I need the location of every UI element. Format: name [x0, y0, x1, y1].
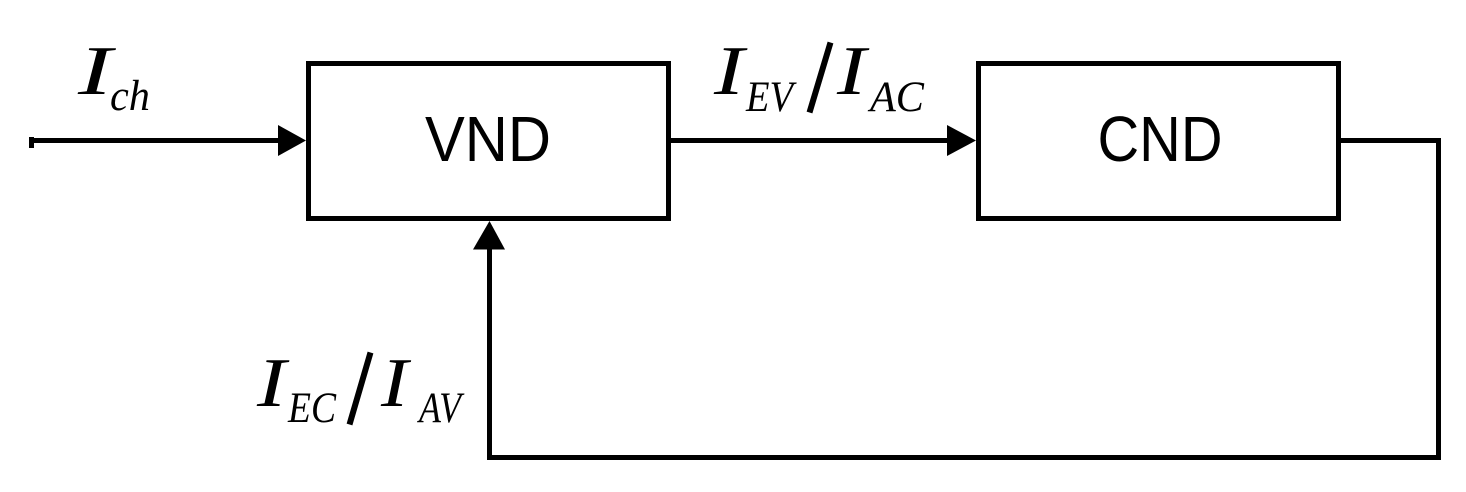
svg-text:EC: EC	[287, 385, 337, 432]
wire feedback CND right down across and up into VND bottom	[473, 141, 1439, 458]
svg-text:I: I	[256, 345, 291, 422]
block VND	[309, 64, 669, 219]
svg-text:EV: EV	[745, 74, 797, 121]
node Ich label	[77, 33, 150, 120]
svg-text:I: I	[713, 33, 749, 110]
svg-text:I: I	[380, 345, 412, 422]
node IEV/IAC label	[713, 33, 926, 121]
svg-text:AV: AV	[416, 385, 464, 432]
svg-text:CND: CND	[1098, 103, 1223, 175]
node IEC/IAV label	[256, 345, 465, 432]
block CND	[979, 64, 1339, 219]
svg-text:VND: VND	[425, 103, 551, 175]
svg-text:AC: AC	[867, 74, 925, 121]
wire input Ich into VND left	[29, 125, 306, 156]
svg-text:I: I	[836, 33, 871, 110]
wire VND output to CND input	[671, 125, 976, 156]
svg-text:ch: ch	[110, 73, 150, 120]
